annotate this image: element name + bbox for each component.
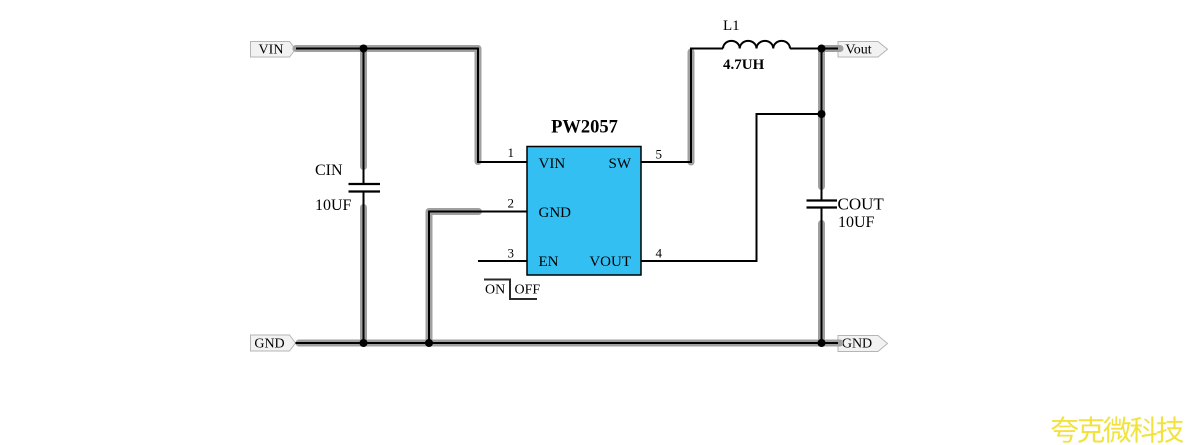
svg-text:EN: EN xyxy=(539,254,559,270)
capacitor CIN xyxy=(349,184,381,192)
wire COUT to ground rail xyxy=(818,208,825,344)
svg-text:PW2057: PW2057 xyxy=(551,118,618,138)
junction dot feedback joins Vout net xyxy=(818,110,826,118)
switch ON/OFF symbol xyxy=(484,280,540,300)
svg-text:VOUT: VOUT xyxy=(589,254,631,270)
svg-text:VIN: VIN xyxy=(539,156,566,172)
svg-text:2: 2 xyxy=(508,196,515,211)
svg-text:VIN: VIN xyxy=(259,43,284,58)
wire VOUT pin 4 feedback xyxy=(641,114,822,261)
svg-text:OFF: OFF xyxy=(515,283,541,298)
junction dot VIN net at CIN xyxy=(360,45,368,53)
svg-text:ON: ON xyxy=(485,283,505,298)
svg-text:3: 3 xyxy=(508,246,515,261)
svg-text:10UF: 10UF xyxy=(838,214,875,231)
svg-text:GND: GND xyxy=(254,337,284,352)
svg-text:10UF: 10UF xyxy=(315,197,352,214)
net label GND right xyxy=(838,336,888,352)
junction dot ground rail at CIN xyxy=(360,339,368,347)
svg-text:COUT: COUT xyxy=(838,195,885,214)
svg-text:4: 4 xyxy=(656,246,663,261)
capacitor COUT xyxy=(807,201,838,208)
junction dot Vout node at L1 output xyxy=(818,45,826,53)
wire SW pin 5 to inductor xyxy=(641,49,723,163)
junction dot ground rail at pin2 branch xyxy=(425,339,433,347)
net label VIN xyxy=(251,42,296,58)
wire inductor to Vout node xyxy=(790,48,822,50)
svg-text:CIN: CIN xyxy=(315,162,343,179)
net label Vout xyxy=(838,42,888,58)
wire CIN to ground rail xyxy=(360,192,367,344)
wire GND pin 2 branch xyxy=(429,212,527,344)
net label GND left xyxy=(251,335,296,352)
watermark 夸克微科技 xyxy=(1051,416,1183,442)
wire Vout node to tag xyxy=(822,45,841,52)
wire Vout node down to COUT xyxy=(818,49,825,201)
svg-text:1: 1 xyxy=(508,145,515,160)
wire CIN branch (VIN net down to CIN) xyxy=(360,49,367,185)
junction dot ground rail at COUT xyxy=(818,339,826,347)
svg-text:4.7UH: 4.7UH xyxy=(723,57,765,73)
svg-text:GND: GND xyxy=(842,337,872,352)
wire EN pin 3 stub xyxy=(478,260,527,262)
svg-text:5: 5 xyxy=(656,147,663,162)
svg-text:Vout: Vout xyxy=(845,43,871,58)
inductor L1 xyxy=(723,41,790,49)
wire VIN net: tag to corner to pin 1 of U1 xyxy=(296,49,527,163)
svg-text:L1: L1 xyxy=(723,18,740,34)
IC U1 PW2057 body xyxy=(527,147,641,276)
wire ground rail xyxy=(296,340,841,347)
svg-text:SW: SW xyxy=(609,156,632,172)
svg-text:GND: GND xyxy=(539,205,572,221)
